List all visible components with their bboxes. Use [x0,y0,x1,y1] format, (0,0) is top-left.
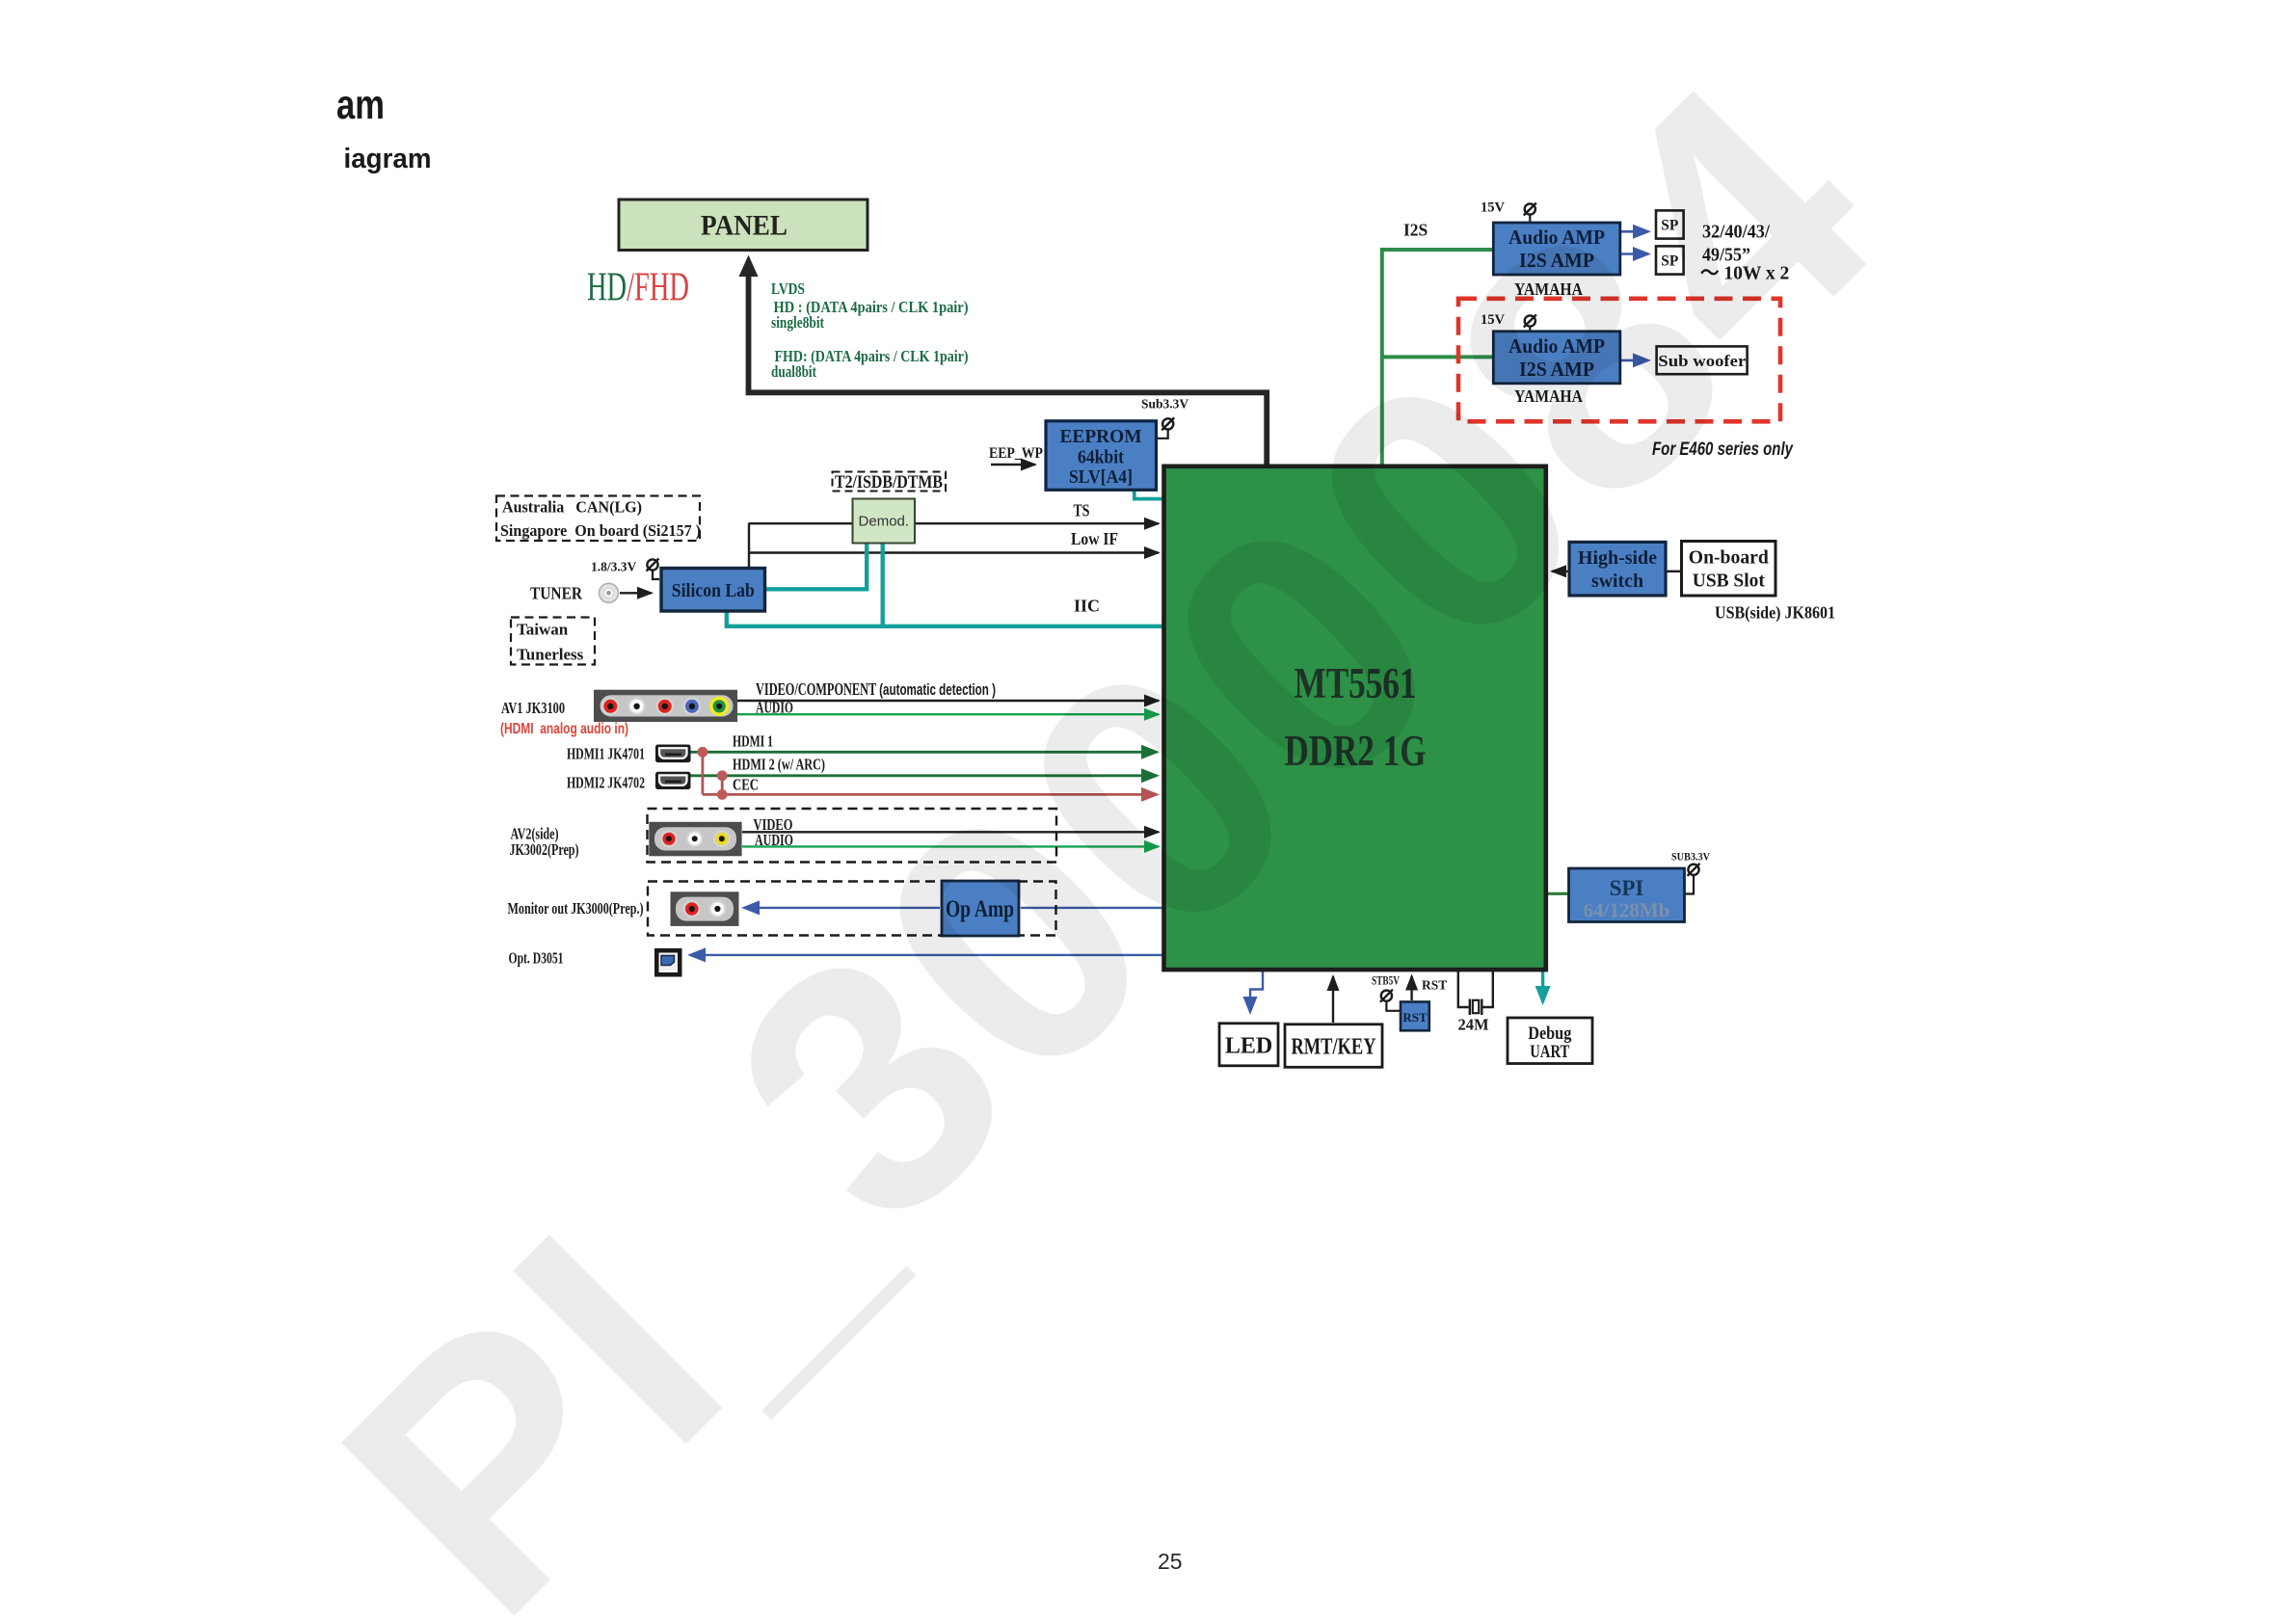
connector AV1 JK3100 (5 RCA jacks) [594,690,737,722]
svg-text:Silicon Lab: Silicon Lab [672,580,755,601]
svg-text:Monitor out JK3000(Prep.): Monitor out JK3000(Prep.) [508,899,644,918]
wire High-side switch to chip arrow [1552,571,1568,572]
svg-text:T2/ISDB/DTMB: T2/ISDB/DTMB [835,473,943,492]
wire power stub AMP2 [1529,327,1531,333]
wire AUDIO AV1 green [737,713,1159,715]
wire RMT/KEY to chip arrow [1332,976,1334,1023]
svg-text:HDMI 1: HDMI 1 [733,732,773,751]
svg-text:SPI: SPI [1610,876,1644,900]
wire AMP1 to SP1 blue arrow [1621,230,1648,233]
wire 24M crystal right leg [1483,971,1493,1007]
wire tuner to Silicon Lab arrow [620,592,652,594]
wire chip to optical blue [690,954,1162,956]
power symbol Sub3.3V (EEPROM) [1161,417,1174,430]
svg-text:AV1 JK3100: AV1 JK3100 [501,699,565,717]
svg-text:RST: RST [1402,1010,1428,1024]
power symbol 15V (AMP1) [1524,203,1536,216]
svg-text:Australia CAN(LG): Australia CAN(LG) [502,498,642,517]
svg-text:Sub3.3V: Sub3.3V [1141,397,1188,412]
block Op Amp [942,881,1019,936]
svg-text:AUDIO: AUDIO [755,831,793,849]
svg-text:CEC: CEC [733,776,759,794]
connector AV2 JK3002 (3 RCA jacks) [649,822,741,857]
svg-text:HD/FHD: HD/FHD [587,266,689,310]
wire ARC vertical from HDMI2 [721,776,724,795]
svg-text:Opt. D3051: Opt. D3051 [509,949,564,968]
wire chip to SPI green [1547,892,1569,895]
wire Demod to Silicon Lab teal [766,543,867,589]
wire power stub Silicon Lab [653,571,659,580]
svg-text:EEP_WP: EEP_WP [989,445,1043,462]
svg-text:HDMI2 JK4702: HDMI2 JK4702 [567,774,645,792]
wire chip to Op Amp blue [1021,907,1162,909]
wire LVDS arrowhead into PANEL [739,255,759,278]
wire power stub EEPROM [1157,430,1168,439]
wire EEP_WP arrow [991,464,1035,466]
power symbol 15V (AMP2) [1524,315,1536,328]
svg-text:USB Slot: USB Slot [1693,571,1765,592]
wire VIDEO/COMPONENT [737,700,1159,702]
block Silicon Lab tuner [661,569,765,612]
power symbol SUB3.3V (SPI) [1688,864,1700,876]
svg-text:SLV[A4]: SLV[A4] [1069,466,1133,488]
svg-text:STB5V: STB5V [1372,974,1400,988]
wire AMP2 to Sub woofer blue arrow [1621,359,1648,362]
svg-text:HDMI1 JK4701: HDMI1 JK4701 [567,745,645,763]
svg-text:LED: LED [1225,1034,1272,1059]
wire chip to LED blue [1250,971,1263,1012]
frame dashed T2/ISDB/DTMB label box [833,472,947,492]
svg-text:1.8/3.3V: 1.8/3.3V [591,560,637,574]
block PANEL [619,200,868,251]
wire CEC [703,793,1157,796]
wire power stub SPI [1685,875,1694,894]
power symbol 1.8/3.3V (tuner) [647,559,659,572]
block SP speaker 1 [1656,210,1684,238]
chip U1 MT5561 main SoC [1164,466,1546,970]
wire I2S green from chip top to Audio AMPs [1382,250,1492,465]
wire Op Amp to monitor jack blue [744,907,940,909]
junction dot ARC/CEC [717,789,728,800]
wire EEPROM to MT5561 teal [1135,490,1162,499]
wire I2S branch to AMP2 [1382,355,1492,359]
wire CEC vertical from HDMI1 [702,752,705,794]
svg-text:JK3002(Prep): JK3002(Prep) [510,840,579,859]
block Audio AMP I2S AMP (main) [1493,223,1620,275]
wire High-side to USB slot link [1667,571,1681,572]
svg-text:RMT/KEY: RMT/KEY [1292,1035,1376,1060]
frame dashed Taiwan Tunerless option [511,618,595,665]
connector Opt. D3051 optical out [654,948,682,977]
svg-text:TUNER: TUNER [530,584,582,603]
wire Low IF line [749,551,1159,553]
block SP speaker 2 [1656,246,1684,274]
svg-text:(HDMI analog audio in): (HDMI analog audio in) [500,721,628,737]
svg-text:single8bit: single8bit [771,313,824,332]
svg-text:USB(side) JK8601: USB(side) JK8601 [1715,603,1835,624]
svg-text:24M: 24M [1457,1016,1489,1034]
wire tuner vertical (Silicon Lab top to TS/LowIF) [748,523,750,569]
wire power stub AMP1 [1529,215,1531,223]
svg-text:Tunerless: Tunerless [517,646,584,664]
svg-text:AUDIO: AUDIO [756,699,793,717]
svg-text:Debug: Debug [1528,1024,1571,1044]
wire HDMI1 [690,751,1158,754]
wire LVDS thick path from PANEL arrow to MT5561 top [749,273,1268,466]
svg-text:EEPROM: EEPROM [1060,426,1142,447]
wire HDMI2 [691,774,1158,777]
svg-text:SUB3.3V: SUB3.3V [1671,852,1711,864]
connector HDMI1 JK4701 [655,745,691,763]
connector TUNER RF jack [600,583,619,602]
svg-text:64/128Mb: 64/128Mb [1584,899,1670,922]
svg-text:LVDS: LVDS [771,279,805,298]
frame dashed Monitor out option box [648,882,1056,936]
svg-text:iagram: iagram [344,144,432,174]
svg-text:VIDEO/COMPONENT (automatic det: VIDEO/COMPONENT (automatic detection ) [756,679,996,699]
block Demod. [853,499,916,544]
junction dot HDMI2/ARC [717,770,728,781]
wire power stub RST [1386,1001,1400,1011]
svg-text:Taiwan: Taiwan [517,621,569,639]
block Debug UART [1508,1018,1592,1064]
wire TS line [749,522,1159,524]
wire AV2 VIDEO [742,831,1159,833]
block EEPROM 64kbit SLV[A4] [1046,421,1157,491]
svg-text:On-board: On-board [1689,547,1770,569]
wire chip to Debug UART teal arrow [1541,971,1544,1002]
svg-text:25: 25 [1158,1549,1183,1574]
svg-text:PANEL: PANEL [701,211,788,242]
svg-text:RST: RST [1422,978,1447,993]
block Sub woofer [1657,346,1748,374]
block RST reset IC [1401,1002,1429,1031]
connector HDMI2 JK4702 [655,772,691,789]
crystal X1 24M plates [1469,999,1471,1016]
block Audio AMP I2S AMP (subwoofer, E460) [1493,332,1620,384]
svg-text:64kbit: 64kbit [1078,447,1124,468]
block On-board USB Slot [1682,542,1776,597]
wire RST to chip arrow [1410,976,1412,1001]
power symbol STB5V (RST) [1380,990,1393,1002]
block RMT/KEY [1285,1024,1382,1068]
block SPI flash 64/128Mb [1569,868,1685,922]
connector Monitor out JK3000 (2 RCA jacks) [671,891,739,926]
block High-side switch [1569,542,1666,596]
junction dot HDMI1/CEC [698,747,708,758]
svg-text:am: am [336,82,385,128]
svg-text:UART: UART [1530,1042,1569,1062]
frame dashed Australia/Singapore tuner option [496,496,700,542]
svg-text:dual8bit: dual8bit [771,362,816,381]
frame For-E460-only red dashed box [1458,299,1780,422]
svg-text:Demod.: Demod. [859,514,910,530]
svg-text:Low IF: Low IF [1071,529,1118,548]
svg-text:HDMI 2 (w/ ARC): HDMI 2 (w/ ARC) [733,756,825,774]
frame dashed AV2 option box [648,809,1057,863]
svg-text:Singapore On board (Si2157 ): Singapore On board (Si2157 ) [500,521,701,540]
wire 24M crystal left leg [1458,971,1469,1007]
wire AV2 AUDIO green [742,845,1159,847]
block LED [1219,1024,1278,1066]
svg-text:TS: TS [1074,501,1090,520]
wire IIC teal bus [727,611,1162,626]
svg-text:I2S: I2S [1403,221,1428,240]
wire Demod to IIC bus teal [881,543,885,625]
wire AMP1 to SP2 blue arrow [1621,253,1648,255]
